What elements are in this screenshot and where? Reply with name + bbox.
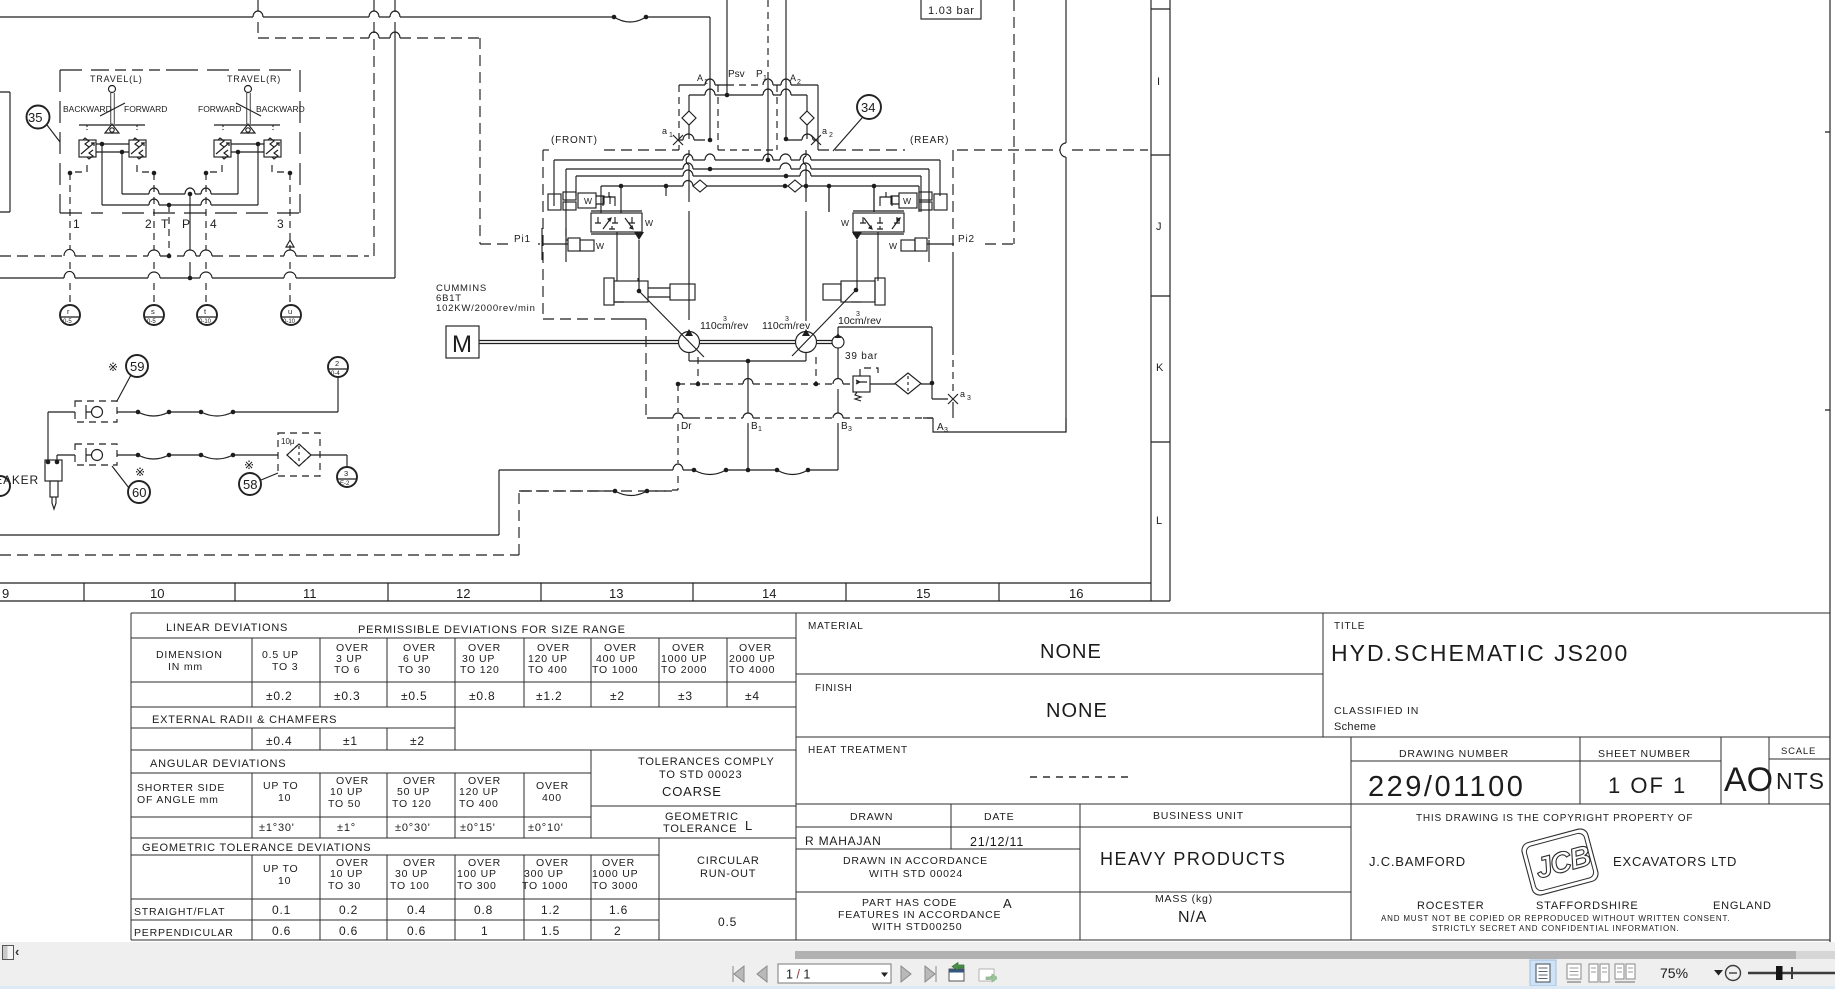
svg-text:1000 UP: 1000 UP — [592, 868, 638, 880]
TITLEBLOCK — [131, 613, 1830, 940]
wire valve cross links — [96, 144, 264, 152]
svg-text:TOLERANCES COMPLY: TOLERANCES COMPLY — [638, 756, 775, 768]
svg-text:N/A: N/A — [1178, 909, 1207, 926]
wire rear drops — [829, 186, 874, 212]
svg-text:※: ※ — [244, 458, 254, 472]
check valve diamond left — [682, 111, 696, 139]
svg-text:102KW/2000rev/min: 102KW/2000rev/min — [436, 303, 536, 314]
svg-text:TO 300: TO 300 — [457, 880, 497, 892]
svg-text:UP TO: UP TO — [263, 780, 299, 792]
svg-text:±0°15': ±0°15' — [460, 822, 496, 834]
svg-text:10 UP: 10 UP — [330, 786, 363, 798]
svg-text:s: s — [151, 307, 155, 316]
svg-text:OVER: OVER — [536, 780, 569, 792]
wire port 4 dashed x=206 — [205, 173, 207, 304]
wire dashed bus y=256 — [0, 255, 369, 257]
wire dashed y=491 sag — [521, 490, 672, 492]
svg-text:12: 12 — [456, 586, 470, 601]
svg-text:3: 3 — [944, 427, 948, 434]
sheet right border — [1825, 0, 1830, 942]
wire port P solid x=190 — [189, 194, 191, 278]
port circle s — [144, 305, 164, 325]
pump aux — [832, 336, 844, 348]
regulator front port cluster — [548, 194, 561, 210]
wire port 3 dashed x=290 — [289, 173, 291, 304]
wire bus L1 y=160 — [554, 160, 940, 206]
svg-text:±1.2: ±1.2 — [536, 689, 562, 703]
svg-text:1.5: 1.5 — [541, 924, 560, 938]
wire long dashed bus y=555 — [0, 491, 672, 555]
svg-text:21/12/11: 21/12/11 — [970, 835, 1024, 849]
svg-text:SCALE: SCALE — [1781, 746, 1816, 757]
svg-text:MATERIAL: MATERIAL — [808, 621, 864, 632]
svg-text:L: L — [745, 818, 753, 833]
svg-text:PERMISSIBLE DEVIATIONS FOR SIZ: PERMISSIBLE DEVIATIONS FOR SIZE RANGE — [358, 624, 626, 636]
svg-text:A: A — [937, 422, 944, 433]
pump front — [679, 332, 700, 353]
M motor box — [446, 326, 479, 358]
svg-text:11: 11 — [303, 586, 317, 601]
svg-text:M: M — [452, 331, 472, 358]
svg-text:2: 2 — [335, 359, 339, 368]
svg-text:EXTERNAL RADII & CHAMFERS: EXTERNAL RADII & CHAMFERS — [152, 714, 337, 726]
svg-text:HEAVY PRODUCTS: HEAVY PRODUCTS — [1100, 849, 1286, 869]
svg-text:NONE: NONE — [1046, 700, 1108, 722]
svg-text:2: 2 — [614, 924, 621, 938]
svg-text:BUSINESS UNIT: BUSINESS UNIT — [1153, 810, 1244, 822]
svg-text:1.03 bar: 1.03 bar — [928, 5, 975, 17]
svg-text:±3: ±3 — [678, 689, 693, 703]
svg-text:a: a — [960, 389, 965, 399]
svg-text:0.5 UP: 0.5 UP — [262, 649, 299, 661]
pump suction manifold — [689, 353, 806, 362]
svg-text:DATE: DATE — [984, 811, 1014, 823]
wire Pi2 line — [927, 243, 954, 245]
svg-text:±0.8: ±0.8 — [469, 689, 495, 703]
svg-text:a: a — [662, 126, 667, 136]
svg-text:※: ※ — [108, 360, 118, 374]
svg-text:15: 15 — [916, 586, 930, 601]
svg-text:10: 10 — [278, 875, 291, 887]
linkage rear — [792, 290, 856, 356]
svg-text:60: 60 — [132, 485, 146, 500]
wire solid bus y=278 — [0, 277, 395, 279]
svg-text:Pi2: Pi2 — [958, 234, 975, 245]
svg-text:400: 400 — [542, 792, 562, 804]
servo piston rear — [823, 284, 841, 300]
regulator rear valve — [853, 213, 904, 232]
wire vertical A1 line x=710 — [709, 17, 711, 140]
svg-text:STRICTLY SECRET AND CONFIDENTI: STRICTLY SECRET AND CONFIDENTIAL INFORMA… — [1432, 924, 1680, 933]
svg-text:±0.4: ±0.4 — [266, 734, 292, 748]
wire dashed elbows to ports — [70, 165, 290, 172]
svg-text:W: W — [584, 196, 592, 206]
regulator front bracket — [603, 192, 615, 206]
svg-text:0.6: 0.6 — [339, 924, 358, 938]
svg-text:1: 1 — [669, 132, 673, 139]
svg-text:±2: ±2 — [610, 689, 625, 703]
svg-text:LINEAR DEVIATIONS: LINEAR DEVIATIONS — [166, 622, 288, 634]
svg-text:Dr: Dr — [681, 421, 692, 432]
svg-text:2: 2 — [797, 79, 801, 86]
inner dashed box — [718, 85, 777, 150]
svg-text:K: K — [1156, 362, 1164, 374]
svg-text:Psv: Psv — [728, 69, 745, 80]
svg-text:R MAHAJAN: R MAHAJAN — [805, 834, 882, 848]
svg-text:J.C.BAMFORD: J.C.BAMFORD — [1369, 854, 1466, 869]
svg-text:TRAVEL(R): TRAVEL(R) — [227, 74, 281, 84]
svg-text:A: A — [790, 73, 796, 83]
svg-text:0-4: 0-4 — [331, 371, 340, 377]
wire bus L2 y=169 — [566, 169, 929, 240]
wire port T dashed x=169 — [168, 205, 170, 256]
svg-text:10: 10 — [150, 586, 164, 601]
svg-text:FEATURES IN ACCORDANCE: FEATURES IN ACCORDANCE — [838, 909, 1001, 921]
wire dashed vertical x=1014 Pi2 pilot — [1013, 0, 1015, 244]
svg-text:1.6: 1.6 — [609, 903, 628, 917]
wire bus L3 y=176 — [576, 176, 921, 212]
svg-text:FORWARD: FORWARD — [124, 104, 167, 114]
pilot valve V2 — [129, 140, 146, 157]
svg-text:FORWARD: FORWARD — [198, 104, 241, 114]
svg-text:0.6: 0.6 — [272, 924, 291, 938]
svg-text:NONE: NONE — [1040, 641, 1102, 663]
svg-text:±1°: ±1° — [337, 822, 356, 834]
wire front valve to servo — [617, 232, 639, 291]
svg-text:30 UP: 30 UP — [395, 868, 428, 880]
svg-text:TO 2000: TO 2000 — [661, 664, 707, 676]
svg-text:ENGLAND: ENGLAND — [1713, 900, 1772, 912]
svg-text:BREAKER: BREAKER — [0, 473, 39, 487]
wire port 1 dashed x=70 — [69, 173, 71, 304]
svg-text:BACKWARD: BACKWARD — [256, 104, 305, 114]
wire solid vertical x=395 — [394, 0, 396, 278]
svg-text:OF ANGLE mm: OF ANGLE mm — [137, 794, 219, 806]
linkage front — [639, 291, 704, 357]
svg-text:±0.5: ±0.5 — [401, 689, 427, 703]
svg-text:TRAVEL(L): TRAVEL(L) — [90, 74, 143, 84]
svg-text:SHORTER SIDE: SHORTER SIDE — [137, 782, 225, 794]
svg-text:ANGULAR DEVIATIONS: ANGULAR DEVIATIONS — [150, 758, 286, 770]
check valve 59 — [75, 401, 117, 422]
svg-text:16: 16 — [1069, 586, 1083, 601]
check valve circle front — [693, 180, 707, 192]
svg-text:HEAT TREATMENT: HEAT TREATMENT — [808, 745, 908, 756]
svg-text:AND MUST NOT BE COPIED OR REPR: AND MUST NOT BE COPIED OR REPRODUCED WIT… — [1381, 914, 1730, 923]
svg-text:(REAR): (REAR) — [910, 135, 949, 146]
wire vertical Psv line x=727 — [726, 0, 728, 95]
svg-text:±0.3: ±0.3 — [334, 689, 360, 703]
svg-text:2: 2 — [145, 217, 152, 231]
svg-text:0.2: 0.2 — [339, 903, 358, 917]
tolerance table frame — [131, 613, 1830, 940]
svg-text:TO 120: TO 120 — [460, 664, 500, 676]
servo piston front — [604, 278, 614, 305]
svg-text:10: 10 — [278, 792, 291, 804]
wire solid vertical x=1066 with hop — [1060, 0, 1066, 432]
wire pump inlet verticals — [688, 150, 690, 332]
svg-text:AO: AO — [1724, 761, 1773, 799]
svg-text:STAFFORDSHIRE: STAFFORDSHIRE — [1536, 900, 1638, 912]
svg-text:50 UP: 50 UP — [397, 786, 430, 798]
svg-text:UP TO: UP TO — [263, 863, 299, 875]
svg-text:14: 14 — [762, 586, 776, 601]
wire dashed vertical x=374 — [373, 0, 375, 252]
svg-text:2: 2 — [829, 132, 833, 139]
svg-text:RUN-OUT: RUN-OUT — [700, 868, 756, 880]
svg-text:FINISH: FINISH — [815, 683, 853, 694]
svg-text:A: A — [697, 73, 703, 83]
svg-text:B: B — [751, 421, 758, 432]
svg-text:10cm/rev: 10cm/rev — [838, 315, 882, 327]
node 1.03 bar box — [921, 0, 981, 19]
filter diamond — [895, 373, 921, 394]
regulator front Pi1 port — [568, 238, 580, 251]
svg-text:DRAWING NUMBER: DRAWING NUMBER — [1399, 748, 1509, 760]
svg-text:W: W — [903, 196, 911, 206]
wire internal drop lines — [102, 144, 258, 205]
svg-text:13: 13 — [609, 586, 623, 601]
svg-text:Scheme: Scheme — [1334, 721, 1376, 733]
svg-text:±1: ±1 — [343, 734, 358, 748]
svg-text:IN mm: IN mm — [168, 661, 203, 673]
svg-text:3: 3 — [848, 426, 852, 433]
filter 58 — [278, 433, 320, 476]
svg-text:T: T — [161, 217, 169, 231]
svg-text:Pi1: Pi1 — [514, 234, 531, 245]
port circle t — [197, 305, 217, 325]
svg-text:1.2: 1.2 — [541, 903, 560, 917]
svg-text:34: 34 — [861, 100, 875, 115]
svg-text:P: P — [182, 217, 190, 231]
svg-text:±1°30': ±1°30' — [259, 822, 295, 834]
svg-text:120 UP: 120 UP — [459, 786, 499, 798]
wire vertical P1 line x=768 — [767, 0, 769, 80]
wire bottom dashed line y=418 — [647, 417, 693, 419]
svg-text:3: 3 — [723, 316, 727, 323]
svg-text:E-2: E-2 — [340, 481, 350, 487]
svg-text:0-10: 0-10 — [199, 319, 212, 325]
svg-text:TO 3000: TO 3000 — [592, 880, 638, 892]
svg-text:TO 4000: TO 4000 — [729, 664, 775, 676]
wire dashed pilot path y=38 — [258, 38, 480, 244]
svg-text:1: 1 — [763, 75, 767, 82]
svg-text:0.6: 0.6 — [407, 924, 426, 938]
tank rect — [933, 418, 1066, 432]
svg-text:B: B — [841, 421, 848, 432]
port circle r — [60, 305, 80, 325]
svg-text:35: 35 — [28, 110, 42, 125]
svg-text:300 UP: 300 UP — [524, 868, 564, 880]
sheet border bottom row — [0, 583, 1170, 601]
svg-text:※: ※ — [135, 465, 145, 479]
svg-text:9: 9 — [2, 586, 9, 601]
svg-text:W: W — [841, 218, 849, 228]
pump case drains dashed — [698, 357, 816, 383]
svg-text:75%: 75% — [1660, 965, 1688, 981]
manifold box top — [679, 85, 818, 150]
svg-text:CIRCULAR: CIRCULAR — [697, 855, 760, 867]
svg-text:ROCESTER: ROCESTER — [1417, 900, 1485, 912]
svg-text:NTS: NTS — [1776, 768, 1825, 794]
svg-text:BACKWARD: BACKWARD — [63, 104, 112, 114]
svg-text:L: L — [1156, 515, 1162, 527]
svg-text:3: 3 — [785, 316, 789, 323]
svg-text:1: 1 — [704, 79, 708, 86]
balloon 2/0-4 — [328, 357, 348, 377]
svg-text:J: J — [1156, 221, 1162, 233]
wire Dr dashed drop — [677, 384, 679, 463]
svg-text:TO 120: TO 120 — [392, 798, 432, 810]
pump unit 34 boundary FRONT — [543, 149, 549, 151]
wire inner top link y=95 — [689, 95, 807, 111]
svg-text:1 / 1: 1 / 1 — [786, 967, 810, 981]
regulator rear Pi2 port — [915, 238, 927, 251]
svg-text:SHEET NUMBER: SHEET NUMBER — [1598, 748, 1691, 760]
svg-text:0.1: 0.1 — [272, 903, 291, 917]
wire filter to balloon 3 — [311, 455, 347, 467]
svg-text:DRAWN IN ACCORDANCE: DRAWN IN ACCORDANCE — [843, 855, 988, 867]
svg-text:(FRONT): (FRONT) — [551, 135, 598, 146]
svg-text:TO 50: TO 50 — [328, 798, 361, 810]
svg-text:0-5: 0-5 — [63, 319, 72, 325]
svg-text:0.8: 0.8 — [474, 903, 493, 917]
wire vertical A2 line x=786 — [785, 0, 787, 139]
wire internal bus y=194 — [122, 193, 238, 195]
wire long return bus y=535 — [0, 470, 499, 535]
wire Pi1 line — [542, 243, 568, 245]
svg-text:1 OF 1: 1 OF 1 — [1608, 773, 1687, 798]
svg-text:DRAWN: DRAWN — [850, 811, 893, 823]
svg-text:3: 3 — [967, 395, 971, 402]
wire rear valve to servo — [857, 232, 878, 290]
svg-text:0-5: 0-5 — [147, 319, 156, 325]
right block frame — [796, 613, 1830, 940]
svg-text:W: W — [596, 241, 604, 251]
pilot valve V1 — [79, 140, 96, 157]
TOOLBAR — [0, 942, 1835, 989]
svg-text:P: P — [756, 69, 763, 80]
svg-text:TO 1000: TO 1000 — [522, 880, 568, 892]
svg-text:EXCAVATORS LTD: EXCAVATORS LTD — [1613, 854, 1737, 869]
svg-text:TO 400: TO 400 — [459, 798, 499, 810]
svg-text:0.4: 0.4 — [407, 903, 426, 917]
svg-text:TO 30: TO 30 — [398, 664, 431, 676]
orifice a3 — [948, 394, 958, 404]
pump unit 34 boundary REAR — [818, 149, 905, 151]
svg-text:1: 1 — [758, 426, 762, 433]
svg-text:±0°10': ±0°10' — [528, 822, 564, 834]
svg-text:TO STD 00023: TO STD 00023 — [659, 769, 742, 781]
svg-text:59: 59 — [130, 359, 144, 374]
svg-text:3: 3 — [277, 217, 284, 231]
regulator front valve — [591, 213, 642, 232]
logo JCB — [1520, 827, 1600, 897]
svg-text:I: I — [1157, 76, 1160, 88]
check valve diamond right — [800, 111, 814, 139]
svg-text:TITLE: TITLE — [1334, 621, 1365, 632]
svg-text:STRAIGHT/FLAT: STRAIGHT/FLAT — [134, 906, 225, 918]
svg-text:3: 3 — [856, 311, 860, 318]
pump rear — [796, 332, 817, 353]
svg-text:±0°30': ±0°30' — [395, 822, 431, 834]
svg-text:WITH STD00250: WITH STD00250 — [872, 921, 962, 933]
svg-text:10μ: 10μ — [281, 437, 295, 446]
svg-text:TO 30: TO 30 — [328, 880, 361, 892]
svg-text:W: W — [889, 241, 897, 251]
svg-text:1: 1 — [481, 924, 488, 938]
regulator rear port cluster — [934, 194, 947, 210]
wire hop arcs on top bus — [253, 11, 400, 17]
svg-text:0-10: 0-10 — [283, 319, 296, 325]
wire 60 line y=455 — [57, 454, 278, 456]
regulator rear bracket — [880, 192, 892, 206]
svg-text:GEOMETRIC: GEOMETRIC — [665, 811, 739, 823]
pilot valve V4 — [264, 140, 281, 157]
svg-text:39 bar: 39 bar — [845, 351, 878, 362]
svg-text:1: 1 — [73, 217, 80, 231]
svg-text:TO 1000: TO 1000 — [592, 664, 638, 676]
balloon 3/E-2 — [337, 467, 357, 487]
svg-text:MASS (kg): MASS (kg) — [1155, 893, 1213, 905]
svg-text:TOLERANCE: TOLERANCE — [663, 823, 737, 835]
svg-text:COARSE: COARSE — [662, 784, 722, 799]
svg-text:58: 58 — [243, 477, 257, 492]
wire top bus y=17 — [0, 16, 710, 18]
wire dashed vertical x=258 pilot — [257, 0, 259, 38]
travel valve block outline 35 — [60, 70, 300, 213]
port circle u — [281, 305, 301, 325]
shaft — [479, 341, 832, 344]
wire 59 line y=412 — [48, 411, 338, 413]
wire hose sag on top bus — [614, 17, 646, 22]
pilot valve V3 — [214, 140, 231, 157]
svg-text:±2: ±2 — [410, 734, 425, 748]
wire internal bus y=205 — [102, 204, 258, 206]
wire tank bus y=470 — [499, 469, 838, 471]
svg-text:THIS DRAWING IS THE COPYRIGHT: THIS DRAWING IS THE COPYRIGHT PROPERTY O… — [1416, 813, 1693, 824]
balloon 34 — [857, 95, 881, 119]
svg-text:TO 6: TO 6 — [334, 664, 360, 676]
svg-text:3: 3 — [344, 469, 348, 478]
svg-text:PERPENDICULAR: PERPENDICULAR — [134, 927, 234, 939]
svg-text:TO 3: TO 3 — [272, 661, 298, 673]
svg-text:10 UP: 10 UP — [330, 868, 363, 880]
svg-text:DIMENSION: DIMENSION — [156, 649, 223, 661]
balloon 35 — [27, 106, 50, 129]
svg-text:4: 4 — [210, 217, 217, 231]
svg-text:100 UP: 100 UP — [457, 868, 497, 880]
svg-text:CLASSIFIED IN: CLASSIFIED IN — [1334, 705, 1419, 717]
svg-text:W: W — [645, 218, 653, 228]
svg-text:TO 100: TO 100 — [390, 880, 430, 892]
svg-text:A: A — [1003, 896, 1012, 911]
svg-text:0.5: 0.5 — [718, 915, 737, 929]
partial block at left margin — [0, 92, 10, 212]
svg-text:WITH STD 00024: WITH STD 00024 — [869, 868, 963, 880]
svg-text:TO 400: TO 400 — [528, 664, 568, 676]
svg-text:±0.2: ±0.2 — [266, 689, 292, 703]
svg-text:a: a — [822, 126, 827, 136]
wire port 2 dashed x=154 — [153, 173, 155, 304]
svg-text:u: u — [288, 307, 292, 316]
wire aux pump circuit — [838, 327, 932, 383]
svg-text:±4: ±4 — [745, 689, 760, 703]
lever base bars — [79, 124, 280, 126]
check valve 60 — [75, 444, 117, 465]
wire B3 drop — [837, 348, 839, 470]
svg-text:GEOMETRIC TOLERANCE DEVIATIONS: GEOMETRIC TOLERANCE DEVIATIONS — [142, 842, 371, 854]
